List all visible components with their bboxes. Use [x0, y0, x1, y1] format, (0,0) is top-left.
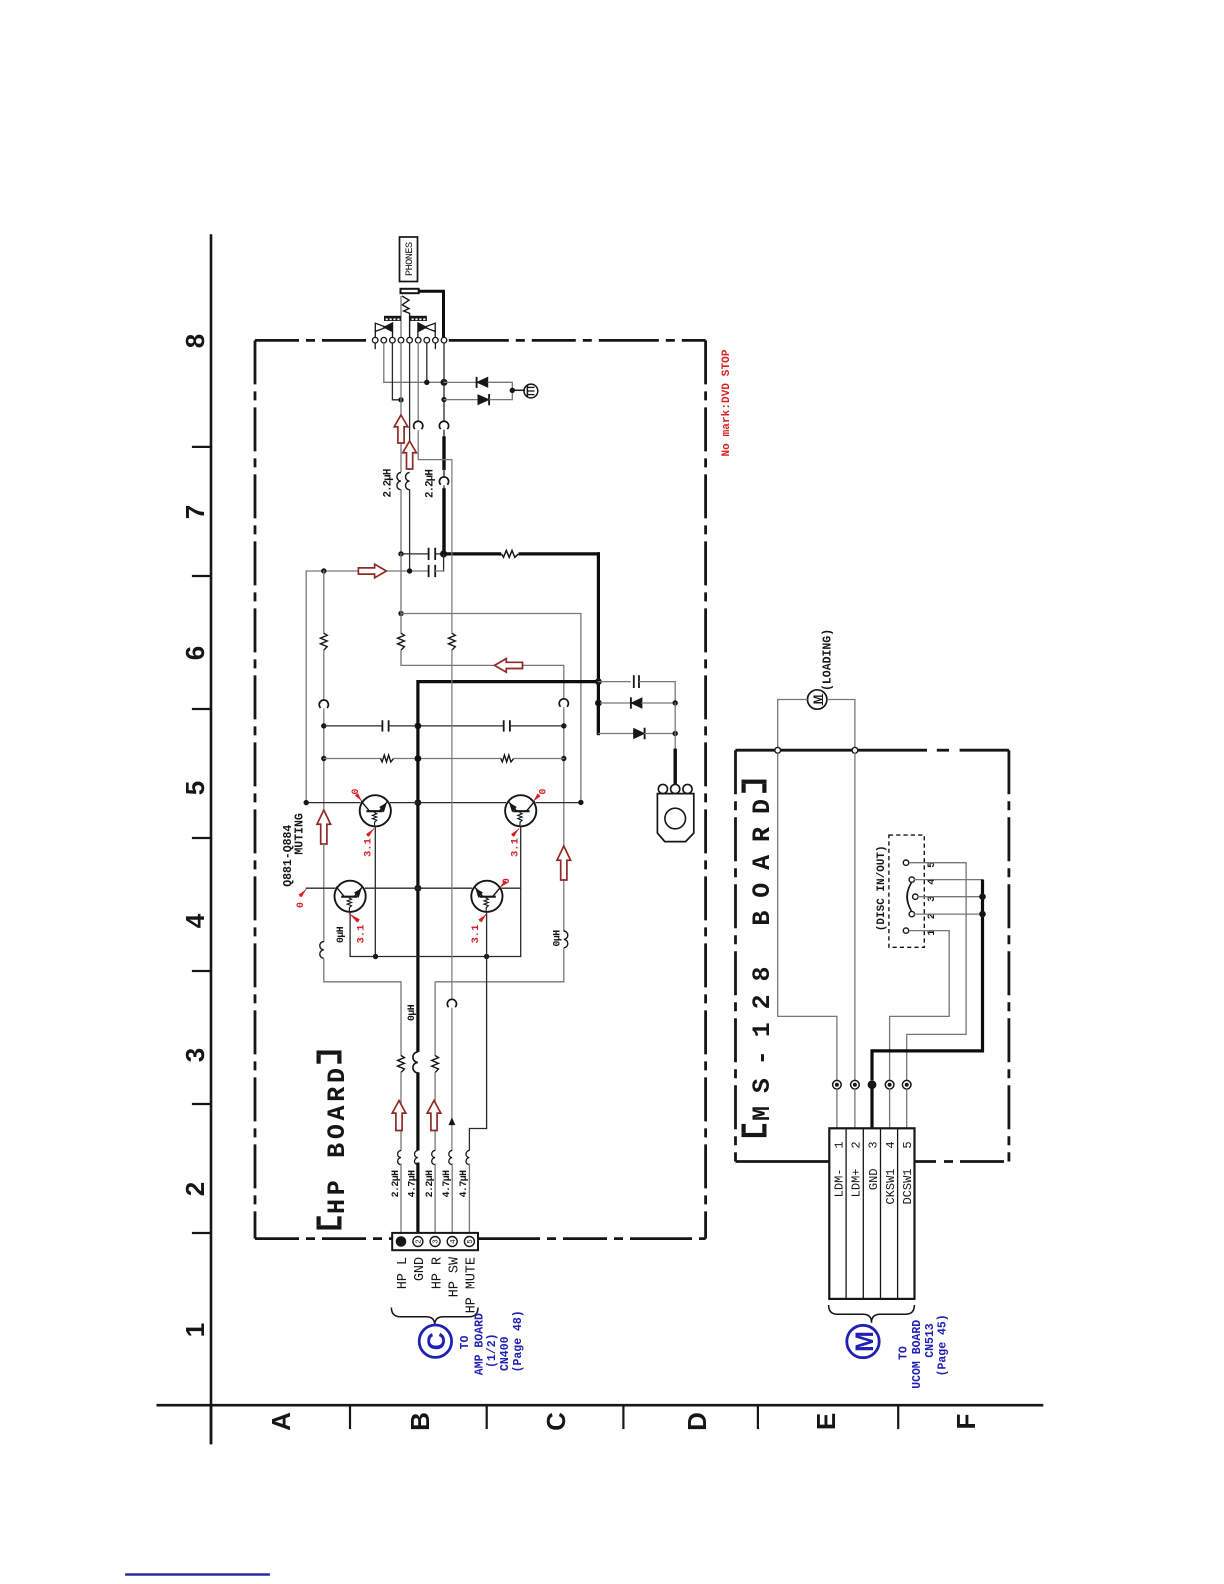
switch c4 wire [915, 879, 983, 881]
GND thick link from switch common down-left to CN col3 [872, 880, 983, 1081]
motor M LOADING [808, 690, 827, 709]
svg-text:E: E [811, 1413, 841, 1430]
svg-text:3.1: 3.1 [356, 925, 368, 944]
wire jack tip to pin 4 [400, 297, 402, 338]
wire row 613.5 to right riser [398, 611, 403, 616]
junction thick/diode row A [595, 700, 602, 707]
signal arrow left on row 665.4 [495, 659, 523, 673]
jack pin 8 stub [434, 343, 436, 348]
jack switch contact left (pins 1-3) [375, 323, 386, 331]
left column 323.8 down: res, arc, rows, arrow, coil, jog to HP L column [323, 571, 325, 633]
sleeve line pin9 down segments with bead arcs and thick sections [443, 343, 445, 421]
jack switch pin6 line down, jog to HP SW column [417, 343, 419, 421]
curly brace under MS connector [829, 1305, 915, 1323]
HP BOARD label [317, 1225, 342, 1229]
wire pin2 down and across to sleeve net [384, 343, 444, 382]
svg-text:HP SW: HP SW [447, 1256, 462, 1297]
motor wires to board edge [778, 700, 808, 748]
connector CN (HP) body [392, 1233, 478, 1250]
svg-text:8: 8 [180, 334, 210, 348]
svg-text:7: 7 [180, 505, 210, 519]
svg-text:2.2µH: 2.2µH [383, 469, 395, 497]
HP MUTE column jog to CN pin 5 [469, 1129, 486, 1151]
cap from thick bus to jack column [598, 681, 630, 683]
wire pin3 down, jog to pin4 line [392, 343, 400, 400]
transistor Q883 [335, 881, 366, 912]
PHONES label box [400, 237, 418, 282]
junction GND/T-row2 [415, 885, 422, 892]
switch contacts 1-5 [903, 928, 908, 933]
inductor 2.2uH (R ch top) [406, 473, 410, 490]
svg-text:3.1: 3.1 [363, 838, 375, 857]
switch c3 wire [918, 896, 982, 898]
junction T-row1 left end [304, 800, 309, 805]
MS-128 BOARD label [742, 1133, 767, 1137]
junction sleeve/diode row 2 [441, 397, 446, 402]
signal arrow right on row 571 [358, 564, 386, 578]
svg-text:0: 0 [295, 902, 306, 908]
switch c1 wire to CKSW1 [890, 931, 950, 1081]
svg-text:2: 2 [180, 1182, 210, 1196]
svg-text:4: 4 [180, 913, 210, 928]
junction GND at resistor row [415, 755, 422, 762]
transistor row 1 wire [306, 802, 360, 804]
transistor Q881 [360, 795, 391, 826]
ruler ticks for columns 1-8 [193, 446, 211, 448]
svg-text:3: 3 [867, 1141, 881, 1148]
svg-text:2: 2 [416, 1239, 424, 1244]
svg-text:DCSW1: DCSW1 [901, 1169, 915, 1205]
junction c2 on thick [979, 911, 986, 918]
cap row 1: L line to GND sleeve [398, 551, 403, 556]
svg-text:5: 5 [467, 1239, 475, 1244]
svg-text:(LOADING): (LOADING) [822, 629, 835, 691]
inductor 0uH left [320, 942, 324, 959]
svg-text:3.1: 3.1 [470, 925, 482, 944]
right column 563.8 down: arc, cap/res rows, coil, jog to HP R column [563, 665, 565, 699]
svg-text:PHONES: PHONES [405, 242, 416, 276]
HP R line from jack pin5 down through 2.2uH to cap row 2 [409, 343, 411, 440]
switch c5 wire to DCSW1 [907, 863, 966, 1080]
svg-text:2.2µH: 2.2µH [390, 1170, 401, 1198]
HP R column lower with resistor and arrow [434, 982, 436, 1056]
svg-text:0: 0 [350, 789, 361, 795]
cap row 2 wire with junctions [306, 570, 428, 572]
svg-text:C: C [541, 1412, 571, 1431]
svg-text:GND: GND [413, 1257, 428, 1281]
svg-text:AMP BOARD: AMP BOARD [473, 1313, 486, 1375]
jack body hatched bar left [384, 316, 401, 321]
wire jack tip bar to sleeve pin 9 [419, 291, 444, 337]
svg-text:1: 1 [180, 1323, 210, 1337]
junction jack column row B [673, 731, 678, 736]
physical phones jack symbol [658, 784, 667, 793]
resistor row between columns [324, 758, 381, 760]
MS connector body [829, 1128, 914, 1299]
blue margin line (page footer mark) [126, 1573, 268, 1575]
transistor Q882 [505, 795, 536, 826]
svg-text:HP L: HP L [396, 1257, 411, 1289]
svg-text:0µH: 0µH [335, 926, 346, 943]
curly brace under CN [391, 1308, 478, 1326]
svg-text:TO: TO [898, 1346, 911, 1360]
svg-text:2: 2 [849, 1141, 863, 1148]
svg-text:MUTING: MUTING [294, 813, 307, 855]
junction pin7/sleeve row [424, 380, 429, 385]
voltage arrow on right column [557, 846, 571, 880]
transistor Q884 [471, 881, 502, 912]
svg-text:1: 1 [832, 1141, 846, 1148]
svg-text:2.2µH: 2.2µH [424, 1170, 435, 1198]
junction diodes common [510, 388, 515, 393]
MS-128 BOARD dashed border box [734, 750, 737, 1161]
junction GND/T-row1 [415, 799, 422, 806]
svg-text:CN400: CN400 [499, 1336, 512, 1371]
svg-text:TO: TO [459, 1335, 472, 1349]
inductor 0uH right [564, 931, 568, 948]
svg-text:3: 3 [180, 1048, 210, 1062]
CN pins 2-5 numbered [413, 1237, 423, 1247]
diode row B (points right) [597, 703, 600, 734]
resistor on L column [398, 633, 405, 650]
svg-text:4.7µH: 4.7µH [458, 1170, 469, 1198]
svg-text:C: C [423, 1332, 451, 1350]
svg-text:2.2µH: 2.2µH [425, 470, 437, 498]
jack spring contact zigzag [402, 296, 410, 337]
thick wire right with series resistor [444, 552, 500, 555]
voltage arrow on HP L top [394, 415, 408, 443]
svg-text:M: M [813, 695, 825, 705]
svg-text:GND: GND [867, 1169, 881, 1191]
cap row 3 between columns [324, 725, 382, 727]
wire pin7 down [426, 343, 428, 382]
svg-text:6: 6 [180, 646, 210, 660]
via donut GND filled [868, 1080, 877, 1089]
jack pin circles 1-9 on HP board border [372, 337, 378, 343]
board edge feedthrough circles [775, 747, 781, 753]
HP SW column: from jack switch jog down to CN pin 4 [451, 460, 453, 634]
svg-text:HP MUTE: HP MUTE [465, 1257, 480, 1313]
svg-text:HP BOARD: HP BOARD [323, 1068, 352, 1214]
connector inductors x5 [398, 1151, 401, 1165]
junction thick/cap to motor-less jack [595, 678, 602, 685]
left riser to transistor row 1 [305, 571, 307, 803]
svg-text:B: B [405, 1412, 435, 1431]
transistor row 2 wire [306, 887, 335, 889]
junction GND at cap row 3 [415, 723, 422, 730]
svg-text:LDM-: LDM- [833, 1169, 847, 1198]
svg-text:3.1: 3.1 [510, 838, 522, 857]
blue reference circle M [847, 1325, 879, 1357]
jack switch contact right (pins 6-8) [418, 323, 427, 332]
L column to row 665.4 [401, 650, 564, 665]
svg-text:4.7µH: 4.7µH [441, 1170, 452, 1198]
svg-text:HP R: HP R [430, 1257, 445, 1289]
wires donuts into MS connector [836, 1089, 838, 1128]
sleeve stub to cap row 2 [443, 554, 445, 571]
svg-text:CKSW1: CKSW1 [884, 1169, 898, 1205]
blue reference circle C [419, 1325, 451, 1357]
ruler ticks for rows A-F [349, 1405, 351, 1428]
voltage arrow on left column [317, 810, 331, 844]
HP L line from jack pin4 down through 2.2uH to cap row [400, 343, 402, 471]
jack column down to physical jack [674, 703, 676, 750]
DISC IN/OUT switch dashed box [889, 835, 924, 947]
motor line 1 inside board to CN col1 [778, 753, 837, 1080]
switch wiper arc [907, 883, 911, 911]
voltage arrow on HP R top [403, 441, 417, 469]
svg-text:0µH: 0µH [406, 1004, 417, 1021]
svg-text:A: A [266, 1412, 296, 1431]
svg-text:(DISC IN/OUT): (DISC IN/OUT) [876, 845, 888, 931]
HP L column lower with resistor and arrow [400, 982, 402, 1056]
svg-text:D: D [682, 1412, 712, 1431]
jack body hatched bar right [410, 316, 427, 321]
MS connector dividers [845, 1128, 847, 1299]
inductor 0uH on GND bus [416, 1052, 420, 1072]
svg-text:4.7µH: 4.7µH [407, 1170, 418, 1198]
svg-text:0µH: 0µH [552, 930, 563, 947]
svg-text:F: F [951, 1414, 981, 1430]
GND thick bus from connector up and right to diode block [418, 682, 599, 1151]
svg-text:UCOM BOARD: UCOM BOARD [911, 1320, 924, 1389]
junction T-row1 right end [578, 800, 583, 805]
svg-text:5: 5 [901, 1141, 915, 1148]
junction pin3 to L line [398, 397, 403, 402]
switch c2 wire [915, 913, 983, 915]
diode D? row 2 to chassis [444, 399, 478, 401]
svg-text:5: 5 [180, 781, 210, 795]
page frame: row-letter ruler line (horizontal) [158, 1404, 1042, 1407]
svg-text:(Page 45): (Page 45) [937, 1314, 950, 1376]
svg-text:MS-128 BOARD: MS-128 BOARD [748, 799, 777, 1121]
junction sleeve row big [441, 379, 448, 386]
junction jack column row A [673, 700, 678, 705]
thick vertical to diode block [597, 554, 600, 734]
svg-text:(Page 48): (Page 48) [512, 1310, 525, 1372]
HP MUTE riser to Q884 base [486, 912, 488, 957]
CN pin 1 filled [396, 1236, 407, 1247]
svg-text:4: 4 [884, 1141, 898, 1148]
page frame: column-number ruler line (vertical) [210, 236, 213, 1443]
chassis ground symbol [512, 389, 524, 391]
svg-text:CN513: CN513 [924, 1323, 937, 1358]
svg-text:3: 3 [433, 1239, 441, 1244]
base drive wire linking transistor bases [374, 827, 376, 957]
via donuts above MS connector [833, 1080, 842, 1089]
svg-text:0: 0 [538, 789, 549, 795]
direction mark on HP SW column [449, 1119, 454, 1125]
diode row A (points left) [598, 702, 630, 704]
svg-text:(1/2): (1/2) [486, 1333, 499, 1368]
jack pin 1 stub [374, 343, 376, 348]
diode D? row 1 to chassis [444, 381, 476, 383]
svg-text:No mark:DVD STOP: No mark:DVD STOP [721, 349, 733, 456]
svg-text:LDM+: LDM+ [850, 1169, 864, 1198]
motor line 2 inside board to CN col2 [854, 753, 856, 1080]
L column between cap row and resistor [400, 554, 402, 633]
junction sleeve big at cap row 1 [440, 550, 447, 557]
junction c3 on thick [979, 893, 986, 900]
inductor 2.2uH (L ch top) [397, 473, 401, 490]
svg-text:M: M [851, 1331, 879, 1352]
svg-text:4: 4 [450, 1239, 458, 1244]
HP BOARD dashed border box [254, 340, 257, 1238]
jack J? tip bar [401, 289, 419, 293]
